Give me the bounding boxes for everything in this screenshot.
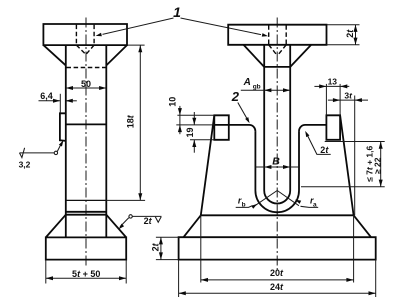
svg-text:19: 19 [185, 127, 195, 137]
svg-text:2t: 2t [320, 145, 329, 155]
svg-text:A: A [243, 77, 251, 88]
svg-text:2: 2 [231, 89, 240, 104]
svg-text:50: 50 [81, 79, 91, 89]
svg-text:2t: 2t [151, 242, 161, 251]
svg-text:18t: 18t [126, 114, 136, 128]
svg-text:10: 10 [168, 97, 178, 107]
svg-text:1: 1 [173, 4, 181, 20]
svg-text:13: 13 [328, 77, 338, 87]
svg-text:5t + 50: 5t + 50 [72, 269, 100, 279]
svg-text:2t: 2t [345, 29, 355, 38]
svg-text:≥ 22: ≥ 22 [373, 157, 383, 174]
svg-text:6,4: 6,4 [40, 91, 53, 101]
svg-text:24t: 24t [270, 282, 284, 292]
svg-text:3,2: 3,2 [19, 160, 31, 170]
svg-text:20t: 20t [270, 268, 284, 278]
svg-text:B: B [272, 156, 280, 168]
svg-text:2t: 2t [144, 216, 153, 226]
svg-text:gb: gb [253, 83, 261, 90]
svg-text:3t: 3t [344, 90, 353, 100]
